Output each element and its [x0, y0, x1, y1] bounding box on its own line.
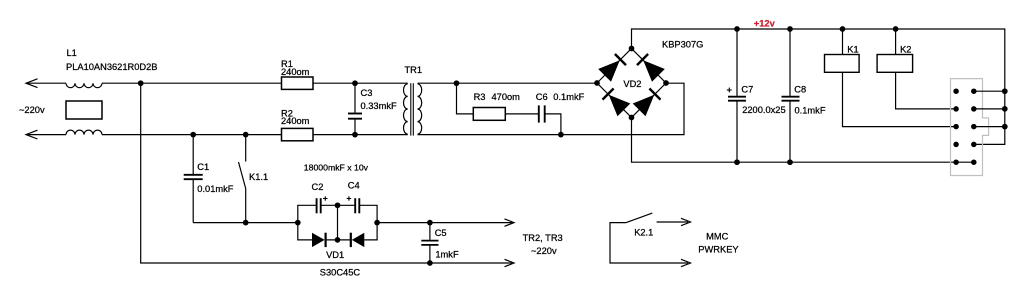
wire: [895, 29, 897, 55]
wire: [327, 239, 350, 241]
node bridge right: [663, 80, 669, 86]
wire: [193, 222, 298, 224]
node C5 bottom: [427, 260, 433, 266]
wire: [974, 108, 1005, 110]
node bridge top: [629, 46, 635, 52]
node C1 tap: [190, 132, 196, 138]
switch K1.1: [245, 135, 247, 162]
wire: [842, 29, 844, 55]
transformer TR1 primary: [404, 84, 408, 134]
node block right: [374, 220, 380, 226]
node junction top: [138, 80, 144, 86]
switch K2.1: [626, 213, 652, 223]
choke L1 bottom winding: [66, 130, 102, 135]
svg-text:C4: C4: [348, 180, 360, 190]
svg-text:L1: L1: [67, 48, 77, 58]
node block left: [295, 220, 301, 226]
svg-text:MMC: MMC: [706, 232, 728, 242]
wire: [632, 118, 974, 163]
svg-text:0.33mkF: 0.33mkF: [361, 101, 397, 111]
bridge VD2 diodes: [598, 60, 620, 82]
wire: [418, 83, 685, 134]
node C3 top: [352, 80, 358, 86]
svg-text:K1.1: K1.1: [249, 172, 268, 182]
svg-text:~220v: ~220v: [531, 246, 557, 256]
output arrow mid: [505, 219, 515, 226]
output arrow bottom: [505, 259, 515, 266]
svg-text:S30C45C: S30C45C: [320, 268, 361, 278]
wire: [359, 205, 377, 222]
wire: [657, 221, 688, 223]
capacitor C4: [354, 198, 356, 213]
node rail C8: [787, 26, 793, 32]
wire: [321, 204, 356, 206]
capacitor C3: [354, 83, 356, 113]
wire: [26, 82, 66, 84]
choke L1 top winding: [66, 83, 102, 88]
node bridge bottom: [629, 115, 635, 121]
wire: [505, 113, 539, 115]
svg-text:2200.0x25: 2200.0x25: [742, 105, 785, 115]
wire: [364, 223, 377, 240]
node rail pin3: [1002, 124, 1008, 130]
resistor R2: [282, 128, 314, 140]
pwrkey arrow bottom: [681, 259, 691, 266]
svg-text:1mkF: 1mkF: [435, 249, 459, 259]
svg-text:0.1mkF: 0.1mkF: [553, 92, 584, 102]
node block mid bottom: [335, 237, 341, 243]
svg-text:18000mkF x 10v: 18000mkF x 10v: [304, 162, 369, 172]
node C6 return: [558, 132, 564, 138]
C4 polarity +: [347, 198, 351, 200]
wire: [610, 223, 688, 263]
svg-text:C3: C3: [361, 88, 373, 98]
svg-text:470om: 470om: [492, 92, 521, 102]
node block mid top: [335, 202, 341, 208]
transformer TR1 core: [410, 83, 412, 135]
svg-text:KBP307G: KBP307G: [662, 39, 703, 49]
svg-text:0.1mkF: 0.1mkF: [795, 105, 826, 115]
wire: [355, 82, 408, 84]
node gnd C8: [787, 159, 793, 165]
C7 polarity +: [727, 89, 732, 91]
node K1.1 bottom: [243, 220, 249, 226]
svg-text:C6: C6: [536, 92, 548, 102]
svg-text:~220v: ~220v: [19, 105, 45, 115]
wire: [632, 29, 1005, 144]
svg-text:TR2, TR3: TR2, TR3: [523, 233, 563, 243]
relay coil K1: [825, 55, 860, 73]
wire: [974, 90, 1005, 92]
node gnd C7: [734, 159, 740, 165]
bridge VD2 outline: [597, 49, 666, 118]
wire: [313, 82, 355, 84]
svg-text:K2: K2: [900, 44, 911, 54]
node rail K2: [893, 26, 899, 32]
capacitor C7: [736, 29, 738, 96]
C2 polarity +: [323, 198, 327, 200]
svg-text:0.01mkF: 0.01mkF: [197, 184, 233, 194]
node C3 bottom: [352, 132, 358, 138]
choke L1 core: [66, 101, 102, 119]
diode VD1b: [350, 233, 352, 247]
node bridge left: [594, 80, 600, 86]
svg-text:C2: C2: [312, 182, 324, 192]
svg-text:PWRKEY: PWRKEY: [698, 244, 738, 254]
svg-text:R3: R3: [474, 92, 486, 102]
diode VD1a: [312, 233, 325, 247]
resistor R3: [473, 108, 505, 121]
capacitor C2: [316, 198, 318, 213]
svg-text:240om: 240om: [281, 116, 310, 126]
wire: [418, 82, 598, 84]
svg-text:C5: C5: [435, 228, 447, 238]
node K1.1 tap: [243, 132, 249, 138]
input arrow top: [26, 79, 38, 88]
wire: [377, 222, 512, 224]
svg-text:+12v: +12v: [754, 18, 776, 28]
wire: [26, 134, 66, 136]
wire: [298, 223, 312, 240]
capacitor C1: [192, 135, 194, 175]
svg-text:K2.1: K2.1: [634, 228, 653, 238]
svg-text:VD1: VD1: [326, 250, 344, 260]
svg-text:240om: 240om: [281, 67, 310, 77]
pwrkey arrow top: [681, 218, 691, 225]
wire: [141, 83, 512, 263]
resistor R1: [282, 77, 314, 89]
wire: [355, 134, 408, 136]
node rail pin1: [1002, 88, 1008, 94]
connector pins: [953, 88, 959, 94]
wire: [102, 134, 282, 136]
svg-text:C8: C8: [794, 85, 806, 95]
wire: [313, 134, 355, 136]
node rail pin2: [1002, 106, 1008, 112]
svg-text:TR1: TR1: [405, 65, 423, 75]
capacitor C8: [789, 29, 791, 96]
wire: [298, 205, 317, 222]
input arrow bottom: [26, 130, 38, 139]
relay coil K2: [877, 55, 913, 73]
wire: [974, 126, 1005, 128]
wire: [102, 82, 282, 84]
svg-text:PLA10AN3621R0D2B: PLA10AN3621R0D2B: [66, 62, 157, 72]
wire: [337, 205, 339, 240]
svg-text:C1: C1: [197, 162, 209, 172]
capacitor C6: [538, 105, 540, 122]
svg-text:C7: C7: [741, 85, 753, 95]
transformer TR1 secondary: [418, 84, 422, 134]
wire: [896, 72, 957, 109]
connector X1 body: [951, 79, 989, 176]
wire: [843, 72, 957, 126]
node C5 top: [427, 220, 433, 226]
wire: [457, 83, 474, 114]
svg-text:K1: K1: [847, 44, 858, 54]
svg-text:VD2: VD2: [623, 79, 641, 89]
node rail C7: [734, 26, 740, 32]
node R3 tap: [454, 80, 460, 86]
capacitor C5: [429, 223, 431, 240]
node rail K1: [840, 26, 846, 32]
wire: [545, 114, 561, 135]
